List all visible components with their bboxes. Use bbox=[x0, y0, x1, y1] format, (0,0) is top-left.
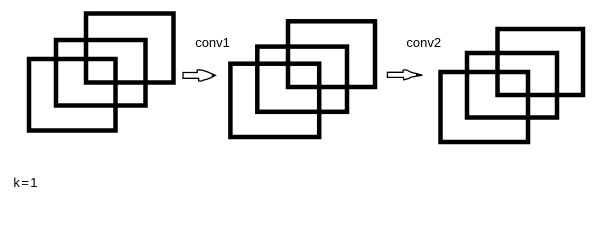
feature map group 3: top rectangle bbox=[498, 29, 584, 95]
arrow conv1 solid tip bbox=[212, 74, 217, 77]
feature map group 2: top rectangle bbox=[288, 21, 375, 87]
feature map group 1: top rectangle bbox=[86, 14, 174, 83]
arrow conv1 (hand-drawn block arrow) bbox=[183, 70, 215, 81]
feature map group 3: middle rectangle bbox=[467, 53, 557, 118]
feature map group 2: middle rectangle bbox=[257, 47, 347, 112]
label conv1 bbox=[195, 35, 230, 50]
feature map group 3: bottom rectangle bbox=[441, 72, 529, 142]
arrow conv2 solid tip bbox=[416, 74, 423, 76]
svg-text:k=1: k=1 bbox=[13, 175, 39, 190]
label conv2 bbox=[406, 35, 441, 50]
feature map group 2: bottom rectangle bbox=[230, 64, 319, 137]
feature map group 1: middle rectangle bbox=[56, 40, 146, 106]
svg-text:conv1: conv1 bbox=[195, 35, 230, 50]
feature map group 1: bottom rectangle bbox=[29, 59, 116, 131]
arrow conv2 (hand-drawn block arrow with thin spike tip) bbox=[387, 70, 422, 80]
svg-text:conv2: conv2 bbox=[406, 35, 441, 50]
label k = 1 bbox=[13, 175, 39, 190]
